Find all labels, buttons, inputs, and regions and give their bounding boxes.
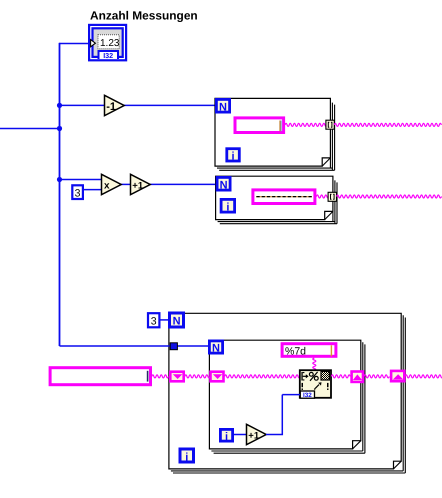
wire trunk vertical [59, 43, 61, 346]
svg-text:i: i [226, 201, 229, 213]
wavy string wire loop2 out [337, 195, 442, 198]
wire increment to loop2 N [150, 183, 217, 185]
svg-text:x: x [104, 180, 110, 191]
wavy string wire loop2 [316, 195, 329, 198]
inner loop N terminal [208, 340, 224, 355]
svg-text:%7d: %7d [285, 346, 306, 358]
wire increment to icon [266, 395, 300, 436]
svg-text:i: i [225, 431, 228, 443]
loop2 N terminal [216, 176, 232, 192]
outer for loop border [169, 313, 405, 473]
loop2 i terminal [220, 198, 236, 214]
auto-index tunnel loop2 [328, 192, 336, 201]
string control (bottom left) [50, 368, 150, 385]
shift register left (outer) [170, 372, 183, 382]
svg-text:I32: I32 [303, 392, 312, 399]
svg-text:3: 3 [75, 187, 81, 199]
string constant %7d [282, 344, 336, 358]
loop1 N terminal [215, 98, 231, 114]
constant 3 (bottom) [148, 313, 159, 327]
wavy string wire loop1 out [334, 123, 441, 126]
junction dot 3 [57, 177, 62, 182]
junction dot 2 [57, 126, 62, 131]
wavy wire control to SR [152, 375, 169, 378]
wavy wire SR to SR [185, 375, 210, 378]
wire trunk to decrement [60, 104, 106, 106]
svg-text:-1: -1 [106, 101, 116, 113]
string constant (empty, loop1) [235, 118, 284, 133]
svg-text:i: i [185, 451, 188, 463]
wavy wire out to right edge [405, 375, 442, 378]
wire trunk to inner N [60, 345, 209, 347]
wire const3 to multiply [84, 189, 102, 191]
tunnel (solid, outer loop) [170, 343, 177, 350]
increment node (bottom) [247, 424, 267, 444]
string constant (dashes, loop2) [253, 190, 315, 204]
for loop 2 border [216, 176, 337, 224]
decrement node [105, 95, 125, 115]
svg-text:3: 3 [151, 315, 157, 327]
wire trunk to multiply [60, 179, 103, 181]
auto-index tunnel loop1 [326, 120, 334, 129]
wire icon to trunk [59, 43, 89, 45]
svg-text:N: N [212, 343, 220, 355]
shift register right (outer) [391, 371, 404, 381]
svg-text:+1: +1 [132, 180, 144, 191]
wavy wire SR to format icon [225, 375, 301, 378]
inner loop i terminal [219, 428, 234, 443]
wire multiply to increment [121, 183, 131, 185]
multiply node [102, 174, 122, 194]
loop1 i terminal [225, 147, 240, 162]
format into string icon [300, 370, 331, 399]
control terminal Anzahl Messungen (I32) [88, 24, 127, 62]
wavy string wire loop1 [285, 123, 327, 126]
svg-text:N: N [220, 179, 228, 191]
svg-text:N: N [219, 101, 227, 113]
svg-text:Anzahl Messungen: Anzahl Messungen [90, 9, 198, 23]
svg-text:1.23: 1.23 [100, 38, 120, 49]
wire decrement to loop1 N [124, 104, 216, 106]
svg-text:i: i [231, 151, 234, 163]
constant 3 (top) [72, 185, 83, 199]
wavy wire icon to SR right (inner) [331, 375, 350, 378]
increment node (top) [131, 174, 151, 194]
inner for loop border [209, 340, 365, 453]
shift register right (inner) [352, 372, 363, 382]
for loop 1 border [215, 98, 335, 170]
svg-text:+1: +1 [248, 430, 260, 441]
wavy wire SR to SR (right) [364, 375, 389, 378]
wavy wire %7d to icon (vertical) [313, 358, 316, 371]
wire const3b to outer N [160, 319, 169, 321]
outer loop i terminal [179, 448, 196, 464]
svg-text:N: N [173, 316, 181, 328]
junction dot 1 [57, 103, 62, 108]
outer loop N terminal [168, 312, 185, 329]
wire from left edge [0, 128, 60, 130]
svg-text:I32: I32 [103, 51, 113, 60]
wire i to increment (bottom) [234, 434, 247, 436]
shift register left (inner) [211, 372, 224, 382]
